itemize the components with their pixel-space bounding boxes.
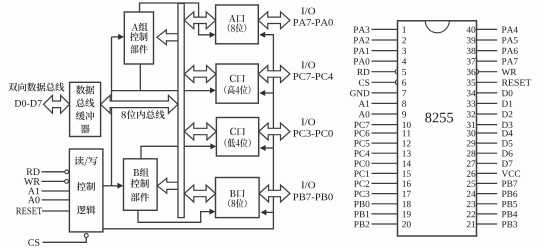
pin 39 lead — [477, 39, 498, 41]
pin 26 label VCC — [502, 171, 521, 177]
pin 23 label PB5 — [502, 201, 517, 207]
pin 37 label PA7 — [502, 58, 518, 64]
wire WR input line — [42, 180, 65, 182]
bus arrow D0-D7 to buffer — [44, 95, 70, 113]
bus arrow port C upper I/O — [258, 66, 290, 83]
port C upper box — [216, 64, 258, 103]
IC label 8255 — [425, 113, 453, 123]
pin 5 label RD — [357, 69, 369, 75]
ctrl-logic label 控制 — [77, 182, 95, 191]
port-C-upper label C口 — [230, 75, 245, 83]
pin 18 lead — [372, 203, 398, 205]
pin 8 number — [402, 101, 406, 107]
pin 1 number — [403, 27, 406, 33]
pin 15 lead — [372, 172, 398, 174]
pin 24 number — [467, 191, 476, 197]
pin 7 lead — [372, 92, 398, 94]
wire ctrl-logic bottom route — [103, 35, 274, 229]
pin 12 number — [403, 140, 411, 146]
pin 30 number — [467, 130, 476, 136]
pin 33 label D1 — [502, 101, 513, 107]
pin 35 lead — [477, 81, 498, 83]
ctrl-logic label 逻辑 — [77, 205, 96, 214]
pin 21 label PB3 — [502, 221, 517, 227]
pin 14 lead — [372, 162, 398, 164]
pin 11 lead — [372, 132, 398, 134]
pin 31 label D3 — [502, 122, 513, 128]
pin 17 number — [403, 191, 411, 197]
pin 21 lead — [477, 223, 498, 225]
bus arrow port A I/O — [258, 12, 290, 29]
pin 10 lead — [372, 124, 398, 126]
buffer label 器 — [81, 125, 90, 134]
wire group-B to port-C-lower — [141, 146, 211, 159]
pin 6 lead — [372, 81, 396, 83]
pin 36 bubble — [474, 70, 478, 74]
label RESET — [16, 208, 42, 215]
label I/O port C upper — [301, 62, 315, 69]
pin 29 lead — [477, 142, 498, 144]
port-C-upper label （高4位） — [224, 85, 250, 94]
label 双向数据总线 — [8, 83, 64, 92]
pin 15 label PC1 — [354, 171, 369, 177]
pin 14 number — [403, 160, 411, 166]
pin 6 number — [402, 79, 406, 85]
label I/O port A — [301, 8, 315, 15]
port-A label （8位） — [228, 24, 247, 33]
wire ctrl vertical riser x112 — [111, 37, 113, 186]
pin 40 label PA4 — [502, 27, 518, 33]
pin 10 number — [403, 122, 411, 128]
pin 20 label PB2 — [354, 221, 369, 227]
pin 23 lead — [477, 203, 498, 205]
pin 4 label PA0 — [354, 58, 370, 64]
ctrl-logic label 读/写 — [74, 156, 97, 166]
port-C-lower label C口 — [230, 128, 245, 136]
group-A label 部件 — [130, 45, 148, 54]
wire ctrl-logic to group-B — [103, 185, 119, 187]
pin 31 number — [467, 122, 475, 128]
pin 24 lead — [477, 193, 498, 195]
wire group-A top route to port-A — [140, 3, 211, 35]
pin 3 label PA1 — [354, 48, 370, 54]
pin 9 number — [402, 111, 406, 117]
pin 5 number — [402, 69, 406, 75]
pin 36 lead — [479, 71, 498, 73]
pin 23 number — [467, 201, 476, 207]
pin 31 lead — [477, 124, 498, 126]
wire group-A to port-C-upper — [112, 90, 211, 92]
pin 34 lead — [477, 92, 498, 94]
pin 32 lead — [477, 113, 498, 115]
label CS — [28, 239, 39, 246]
pin 17 label PC3 — [354, 191, 369, 197]
label PA7-PA0 — [293, 19, 333, 26]
pin 34 label D0 — [502, 90, 513, 96]
pin 40 number — [467, 27, 476, 33]
inverter bubble WR — [65, 180, 69, 184]
pin 7 label GND — [350, 90, 369, 96]
pin 14 label PC0 — [354, 160, 369, 166]
IC notch — [425, 21, 449, 33]
pin 19 lead — [372, 213, 398, 215]
wire RD input line — [42, 171, 65, 173]
pin 33 number — [467, 101, 475, 107]
port B box — [216, 178, 260, 218]
control-word arrow into group A — [157, 30, 178, 45]
label 8位内总线 — [121, 110, 164, 119]
pin 16 lead — [372, 182, 398, 184]
control-word arrow into group B — [157, 178, 178, 193]
pin 25 lead — [477, 182, 498, 184]
wire CS input line — [43, 237, 87, 242]
port-C-lower label （低4位） — [225, 138, 251, 147]
pin 38 number — [467, 48, 476, 54]
pin 13 number — [403, 150, 411, 156]
pin 5 lead — [372, 71, 396, 73]
group B control box — [124, 159, 158, 211]
port-B label B口 — [230, 190, 245, 198]
group A control box — [124, 12, 153, 64]
pin 34 number — [467, 90, 476, 96]
pin 36 label WR — [502, 69, 517, 75]
group-B label 部件 — [131, 193, 149, 202]
label PC3-PC0 — [293, 130, 333, 137]
wire right riser branch to port-C-upper — [265, 92, 274, 94]
bus arrow internal bus to port C lower — [184, 123, 216, 140]
pin 15 number — [403, 171, 411, 177]
pin 25 number — [467, 181, 476, 187]
label WR — [24, 178, 40, 185]
port-A label A口 — [229, 15, 245, 23]
pin 13 label PC4 — [354, 150, 370, 156]
wire group-A bottom drop — [139, 64, 141, 91]
pin 20 lead — [372, 223, 398, 225]
wire group-B to port-B — [138, 210, 210, 222]
pin 39 label PA5 — [502, 37, 518, 43]
label I/O port B — [301, 182, 315, 189]
pin 25 label PB7 — [502, 181, 517, 187]
pin 5 bubble — [395, 70, 399, 74]
pin 3 lead — [372, 50, 398, 52]
pin 37 number — [467, 58, 476, 64]
pin 4 number — [402, 58, 406, 64]
pin 32 number — [467, 111, 475, 117]
pin 10 label PC7 — [354, 122, 369, 128]
pin 19 number — [403, 211, 411, 217]
pin 28 label D6 — [502, 150, 513, 156]
pin 18 number — [403, 201, 411, 207]
pin 8 lead — [372, 102, 398, 104]
pin 27 lead — [477, 162, 498, 164]
port-B label （8位） — [228, 199, 247, 208]
pin 27 number — [467, 160, 476, 166]
pin 16 label PC2 — [354, 181, 369, 187]
pin 16 number — [403, 181, 411, 187]
pin 38 lead — [477, 50, 498, 52]
buffer label 缓冲 — [76, 111, 94, 120]
IC 8255 body — [398, 21, 477, 236]
pin 28 lead — [477, 152, 498, 154]
label PC7-PC4 — [293, 73, 333, 80]
data bus buffer box — [70, 82, 101, 136]
pin 7 number — [402, 90, 406, 96]
pin 37 lead — [477, 60, 498, 62]
pin 32 label D2 — [502, 111, 513, 117]
bus arrow port C lower I/O — [259, 123, 290, 140]
pin 39 number — [467, 37, 475, 43]
port C lower box — [216, 118, 258, 157]
pin 30 lead — [477, 132, 498, 134]
label I/O port C lower — [301, 119, 315, 126]
pin 24 label PB6 — [502, 191, 517, 197]
pin 29 number — [467, 140, 476, 146]
wire right riser branch to port-C-lower — [265, 147, 273, 149]
pin 17 lead — [372, 193, 398, 195]
wire A0 input line — [42, 199, 70, 201]
pin 1 label PA3 — [354, 27, 370, 33]
wire RESET input line — [42, 210, 69, 212]
wire right riser branch to port-B — [266, 211, 274, 213]
group-A label 控制 — [130, 32, 148, 41]
group-B label 控制 — [131, 179, 149, 188]
label PB7-PB0 — [293, 194, 333, 201]
label D0-D7 — [15, 100, 42, 107]
pin 38 label PA6 — [502, 48, 518, 54]
pin 33 lead — [477, 102, 498, 104]
pin 6 bubble — [395, 80, 399, 84]
pin 29 label D5 — [502, 140, 513, 146]
wire ctrl to group-A — [112, 36, 119, 38]
label RD — [26, 168, 39, 175]
pin 9 label A0 — [359, 111, 370, 117]
buffer label 总线 — [76, 98, 94, 107]
bus arrow buffer to internal bus — [101, 95, 178, 113]
group-B label B组 — [133, 168, 148, 176]
pin 12 lead — [372, 142, 398, 144]
pin 35 label RESET — [502, 79, 531, 85]
pin 6 label CS — [359, 79, 369, 85]
bus arrow port B I/O — [259, 185, 290, 202]
buffer label 数据 — [76, 85, 94, 94]
pin 30 label D4 — [502, 130, 513, 136]
bus arrow internal bus to port B — [184, 185, 215, 202]
pin 27 label D7 — [502, 161, 513, 167]
port A box — [216, 5, 259, 44]
inverter bubble CS — [84, 234, 88, 238]
pin 20 number — [402, 221, 411, 227]
wire A1 input line — [42, 190, 70, 192]
bus arrow internal bus to port A — [184, 12, 215, 29]
pin 22 lead — [477, 213, 498, 215]
group-A label A组 — [131, 23, 147, 31]
pin 26 lead — [477, 172, 498, 174]
pin 22 number — [467, 211, 475, 217]
inverter bubble RD — [65, 170, 69, 174]
internal 8-bit bus bar — [178, 3, 184, 217]
pin 2 lead — [372, 39, 398, 41]
pin 11 label PC6 — [354, 130, 369, 136]
pin 36 number — [467, 69, 476, 75]
pin 2 label PA2 — [354, 37, 370, 43]
pin 3 number — [402, 48, 406, 54]
pin 26 number — [467, 171, 476, 177]
pin 18 label PB0 — [354, 201, 369, 207]
label A1 — [28, 188, 40, 195]
read/write control logic box — [69, 149, 103, 232]
pin 35 number — [467, 79, 475, 85]
pin 11 number — [403, 130, 411, 136]
pin 22 label PB4 — [502, 211, 518, 217]
pin 1 lead — [372, 28, 398, 30]
pin 4 lead — [372, 60, 398, 62]
pin 9 lead — [372, 113, 398, 115]
bus arrow internal bus to port C upper — [184, 66, 216, 83]
pin 2 number — [402, 37, 406, 43]
label A0 — [28, 196, 40, 203]
pin 19 label PB1 — [354, 211, 369, 217]
pin 8 label A1 — [359, 101, 370, 107]
pin 12 label PC5 — [354, 140, 369, 146]
pin 40 lead — [477, 28, 498, 30]
pin 13 lead — [372, 152, 398, 154]
pin 28 number — [467, 150, 476, 156]
pin 21 number — [467, 221, 475, 227]
